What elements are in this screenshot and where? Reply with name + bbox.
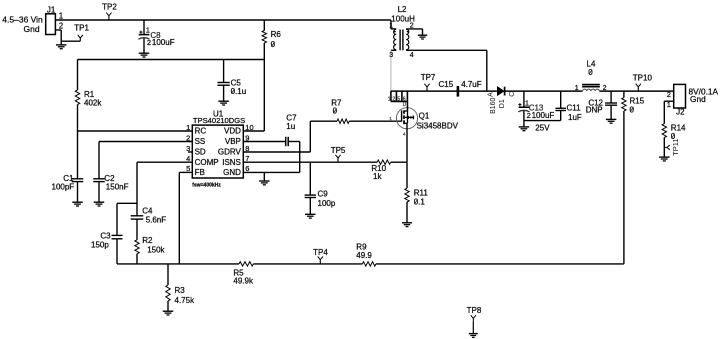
svg-text:R15: R15 [630,97,645,106]
svg-text:2: 2 [59,22,64,31]
svg-text:150nF: 150nF [106,183,129,192]
svg-text:TP10: TP10 [633,74,653,83]
svg-text:4.75k: 4.75k [175,296,196,305]
svg-text:C4: C4 [142,206,153,215]
svg-text:SS: SS [195,137,206,146]
svg-text:1: 1 [146,25,150,34]
svg-text:RC: RC [195,127,207,136]
svg-text:GDRV: GDRV [218,148,242,157]
svg-text:5.6nF: 5.6nF [146,215,167,224]
svg-text:C3: C3 [100,232,111,241]
svg-text:5: 5 [397,96,400,102]
svg-text:FB: FB [195,168,205,177]
svg-text:C11: C11 [567,104,582,113]
svg-text:COMP: COMP [195,158,219,167]
svg-text:2: 2 [392,96,395,102]
svg-text:C9: C9 [318,190,329,199]
svg-text:TP4: TP4 [313,248,328,257]
svg-text:Gnd: Gnd [690,94,706,104]
svg-text:Gnd: Gnd [24,24,40,34]
svg-text:3: 3 [389,52,393,59]
svg-text:4: 4 [403,132,406,138]
svg-text:Q1: Q1 [419,112,430,121]
svg-text:2: 2 [603,85,607,92]
svg-text:VBP: VBP [225,137,241,146]
svg-text:ISNS: ISNS [222,158,241,167]
svg-text:4.5–36 Vin: 4.5–36 Vin [2,14,43,24]
svg-text:fsw=400kHz: fsw=400kHz [192,183,221,189]
svg-text:49.9: 49.9 [356,251,372,260]
svg-text:R6: R6 [271,30,282,39]
svg-text:DNP: DNP [586,106,603,115]
svg-text:L2: L2 [398,5,407,14]
svg-text:R11: R11 [414,189,429,198]
svg-text:J2: J2 [676,108,685,117]
svg-text:TP7: TP7 [421,73,436,82]
svg-text:D1: D1 [499,99,506,108]
svg-text:1: 1 [575,85,579,92]
svg-text:100uF: 100uF [532,111,555,120]
svg-text:150p: 150p [91,241,109,250]
svg-text:Si3458BDV: Si3458BDV [417,121,459,130]
svg-text:TP5: TP5 [331,146,346,155]
svg-text:1u: 1u [286,122,295,131]
svg-text:1: 1 [388,96,391,102]
svg-text:B160: B160 [490,97,497,113]
svg-text:402k: 402k [84,98,102,107]
svg-text:J1: J1 [47,5,56,14]
svg-text:VDD: VDD [224,127,241,136]
svg-text:25V: 25V [535,124,550,133]
svg-text:4: 4 [410,52,414,59]
svg-text:TP2: TP2 [102,3,117,12]
svg-text:GND: GND [223,168,241,177]
svg-text:TP8: TP8 [467,306,482,315]
svg-text:100pF: 100pF [52,183,75,192]
svg-text:2: 2 [527,111,531,120]
svg-text:1k: 1k [373,172,382,181]
svg-text:100uF: 100uF [152,38,175,47]
svg-text:1: 1 [389,22,393,29]
svg-text:1: 1 [59,11,64,20]
svg-text:C5: C5 [231,78,242,87]
svg-text:150k: 150k [147,245,165,254]
svg-text:C15: C15 [439,80,454,89]
svg-text:49.9k: 49.9k [233,277,254,286]
svg-text:100p: 100p [318,199,336,208]
svg-text:2: 2 [147,38,151,47]
svg-text:1: 1 [389,116,392,122]
svg-text:R3: R3 [175,286,186,295]
svg-text:R2: R2 [142,236,153,245]
svg-text:2: 2 [667,90,671,99]
svg-text:A: A [487,92,494,97]
svg-text:SD: SD [195,148,206,157]
svg-text:TPS40210DGS: TPS40210DGS [193,116,245,125]
svg-text:TP11: TP11 [671,138,680,155]
svg-text:4.7uF: 4.7uF [461,80,482,89]
svg-text:2: 2 [410,22,414,29]
svg-text:TP1: TP1 [74,23,89,32]
svg-text:1uF: 1uF [568,113,582,122]
svg-text:C: C [509,92,516,97]
